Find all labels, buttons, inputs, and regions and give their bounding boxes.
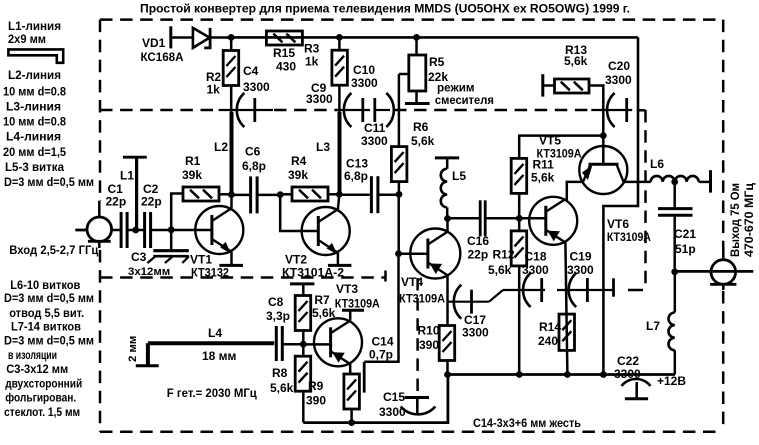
- node rail at R10: [445, 372, 451, 378]
- svg-text:5,6k: 5,6k: [564, 54, 588, 68]
- svg-text:R3: R3: [304, 42, 320, 56]
- svg-text:2х9 мм: 2х9 мм: [8, 32, 46, 46]
- wire VT2 emitter to chassis bar: [337, 253, 340, 266]
- svg-text:R14: R14: [539, 320, 561, 334]
- node L6 tap: [672, 179, 678, 185]
- svg-text:390: 390: [306, 394, 326, 408]
- svg-text:470-670 МГц: 470-670 МГц: [742, 182, 756, 257]
- wire C1 to C2: [127, 229, 145, 232]
- svg-text:C15: C15: [383, 390, 405, 404]
- svg-text:22p: 22p: [468, 248, 489, 262]
- oscillator compartment wall x417.6 (dashed): [416, 278, 419, 396]
- svg-text:Вход 2,5-2,7 ГГц: Вход 2,5-2,7 ГГц: [9, 243, 99, 257]
- node top rail at R5: [414, 35, 420, 41]
- svg-text:C22: C22: [617, 354, 639, 368]
- capacitor C14 0,7p gimmick stub: [363, 362, 366, 393]
- resistor R11 5,6k: [511, 136, 603, 219]
- svg-text:430: 430: [276, 60, 296, 74]
- svg-text:L5-3 витка: L5-3 витка: [5, 160, 64, 174]
- output compartment bottom corner dash: [628, 289, 643, 292]
- resistor R3 1k: [332, 37, 348, 112]
- wire VT4 base: [399, 252, 429, 255]
- svg-text:C4: C4: [243, 64, 259, 78]
- resistor R12 5,6k: [511, 218, 527, 374]
- node VT1 collector / L2: [229, 192, 235, 198]
- capacitor C8 3,3p: [276, 326, 303, 361]
- L1 strip symbol: [8, 49, 63, 62]
- svg-text:3300: 3300: [306, 92, 333, 106]
- svg-text:L4: L4: [208, 326, 222, 340]
- wire R1 to collector node: [219, 193, 232, 196]
- transistor VT2 КТ3101А-2 npn: [302, 207, 350, 255]
- svg-text:5,6k: 5,6k: [488, 263, 512, 277]
- wire IF +12V rail: [448, 373, 676, 376]
- stripline L2: [230, 112, 234, 195]
- node rail at R12/C18: [516, 372, 522, 378]
- svg-text:5,6k: 5,6k: [531, 171, 555, 185]
- shield box left edge lower (dashed): [99, 250, 102, 432]
- output coax connector: [710, 247, 736, 290]
- wire C17 diagonal to IF wall: [489, 290, 503, 302]
- svg-text:R1: R1: [185, 154, 201, 168]
- svg-text:3х12мм: 3х12мм: [128, 266, 170, 278]
- svg-text:VT4: VT4: [401, 275, 423, 289]
- svg-text:R5: R5: [429, 55, 445, 69]
- svg-text:L7-14 витков: L7-14 витков: [11, 320, 81, 334]
- inner shield wall y110 right section (dashed): [394, 109, 590, 112]
- wire VT1 base bias jog: [171, 194, 183, 230]
- node VT1 base: [168, 227, 174, 233]
- stripline L3: [338, 112, 342, 194]
- svg-text:С3-3х12 мм: С3-3х12 мм: [6, 362, 68, 376]
- transistor VT5 КТ3109А pnp (base up): [579, 136, 627, 194]
- wire VT5 collector to L6: [623, 181, 651, 184]
- svg-text:R6: R6: [413, 120, 429, 134]
- shield box bottom edge (dashed): [100, 430, 722, 433]
- node VT2 collector / L3: [336, 192, 342, 198]
- svg-text:VD1: VD1: [142, 36, 166, 50]
- node C13/R6/mixer: [396, 192, 402, 198]
- transistor VT4 КТ3109А pnp mixer: [410, 229, 460, 279]
- inner shield wall y110 mid section (dashed): [274, 109, 339, 112]
- node VT4 base: [396, 251, 402, 257]
- svg-text:390: 390: [419, 338, 439, 352]
- svg-text:2 мм: 2 мм: [127, 336, 139, 362]
- wire +12V feed right vertical: [603, 37, 638, 374]
- chassis bar VT3 collector: [342, 309, 364, 312]
- svg-text:C6: C6: [245, 145, 261, 159]
- node rail at R14: [565, 372, 571, 378]
- svg-text:VT1: VT1: [190, 253, 212, 267]
- node VT4 collector / L5 / C16: [445, 216, 451, 222]
- svg-text:VT5: VT5: [539, 134, 561, 148]
- svg-text:39k: 39k: [182, 168, 202, 182]
- node L1 tap: [133, 227, 139, 233]
- wire C16 to VT6 base node: [485, 217, 546, 220]
- wire C6 to R4/VT2 node: [257, 194, 280, 197]
- svg-text:КТ3109А: КТ3109А: [399, 292, 445, 306]
- wire to output connector: [675, 270, 754, 273]
- svg-text:VT2: VT2: [285, 253, 307, 267]
- svg-text:C3: C3: [131, 250, 147, 264]
- wire oscillator bottom rail: [303, 375, 448, 423]
- svg-text:C11: C11: [364, 121, 386, 135]
- svg-text:C18: C18: [525, 250, 547, 264]
- svg-text:1k: 1k: [207, 83, 221, 97]
- capacitor C22 3300 feedthrough: [622, 379, 651, 399]
- node R9 bottom: [349, 420, 355, 426]
- svg-text:D=3 мм d=0,5 мм: D=3 мм d=0,5 мм: [4, 175, 94, 189]
- shield box left edge upper (dashed): [99, 20, 102, 201]
- svg-text:R4: R4: [291, 154, 307, 168]
- shield wall jog at C20 to inner box: [638, 109, 646, 111]
- svg-text:3300: 3300: [614, 367, 641, 381]
- capacitor C10 3300 feedthrough: [375, 93, 394, 127]
- svg-text:1k: 1k: [305, 55, 319, 69]
- svg-text:22p: 22p: [106, 195, 127, 209]
- resistor R4 39k: [280, 187, 328, 201]
- svg-text:3300: 3300: [462, 326, 489, 340]
- resistor R6 5,6k: [391, 74, 407, 194]
- resistor R13 5,6k: [543, 74, 604, 96]
- svg-text:L3: L3: [316, 140, 330, 154]
- node top rail at R2/VD1: [228, 35, 234, 41]
- svg-text:Простой конвертер для приема т: Простой конвертер для приема телевидения…: [140, 2, 630, 16]
- capacitor C3 3x12мм strip to chassis: [148, 230, 189, 263]
- shield box right edge upper (dashed): [722, 20, 725, 247]
- wire VT3 base: [303, 343, 330, 346]
- resistor R14 240: [559, 314, 575, 350]
- capacitor C16 22p: [480, 200, 485, 236]
- wire top +12V rail: [231, 36, 638, 39]
- svg-text:R12: R12: [493, 248, 515, 262]
- svg-text:КС168А: КС168А: [141, 50, 184, 64]
- svg-text:6,8p: 6,8p: [344, 169, 368, 183]
- inductor L7: [668, 272, 674, 375]
- svg-text:18 мм: 18 мм: [202, 349, 237, 363]
- svg-text:10 мм d=0.8: 10 мм d=0.8: [3, 115, 66, 129]
- capacitor C20 3300 feedthrough: [591, 93, 632, 136]
- capacitor C15 3300 feedthrough: [401, 398, 436, 415]
- svg-text:стеклот. 1,5 мм: стеклот. 1,5 мм: [4, 405, 80, 419]
- lower shield wall y277.5 (dashed): [100, 276, 385, 279]
- capacitor C4 3300 feedthrough: [219, 93, 273, 127]
- svg-text:R10: R10: [418, 324, 440, 338]
- output compartment right wall x645.5 (dashed): [644, 110, 647, 290]
- transistor VT6 КТ3109А pnp: [529, 197, 577, 245]
- capacitor C13 6,8p: [371, 176, 378, 213]
- wire VT3 emitter to R9: [349, 364, 352, 374]
- svg-text:5,6k: 5,6k: [270, 381, 294, 395]
- svg-text:C10: C10: [353, 63, 375, 77]
- wire R4 to collector node: [328, 193, 339, 196]
- svg-text:фольгирован.: фольгирован.: [5, 391, 76, 405]
- svg-text:C20: C20: [608, 59, 630, 73]
- svg-text:3300: 3300: [361, 134, 388, 148]
- svg-text:3300: 3300: [243, 80, 270, 94]
- svg-text:R15: R15: [273, 46, 295, 60]
- svg-text:C19: C19: [570, 250, 592, 264]
- wire VT1 collector to node: [230, 195, 233, 209]
- svg-text:L1-линия: L1-линия: [8, 19, 61, 33]
- svg-text:смесителя: смесителя: [435, 93, 494, 107]
- svg-text:20 мм d=1,5: 20 мм d=1,5: [3, 145, 66, 159]
- svg-text:С14-3х3+6 мм жесть: С14-3х3+6 мм жесть: [473, 416, 581, 430]
- svg-text:L6-10 витков: L6-10 витков: [10, 278, 80, 292]
- wire VT2 collector to node: [338, 195, 339, 210]
- wire VT2 base jog: [280, 195, 318, 231]
- svg-text:R8: R8: [272, 366, 288, 380]
- svg-text:отвод 5,5 вит.: отвод 5,5 вит.: [9, 306, 84, 320]
- svg-text:3300: 3300: [522, 263, 549, 277]
- node VT3 base: [300, 341, 306, 347]
- shield box top edge (dashed): [100, 18, 722, 21]
- svg-text:Выход 75 Ом: Выход 75 Ом: [728, 183, 742, 257]
- wire input to C1: [112, 229, 120, 232]
- svg-text:3300: 3300: [379, 405, 406, 419]
- resistor R8 5,6k: [295, 344, 311, 422]
- svg-text:КТ3132: КТ3132: [191, 266, 229, 280]
- wire L6 tap to C21: [673, 182, 676, 207]
- svg-text:VT3: VT3: [336, 282, 358, 296]
- inductor L6 with tap: [651, 170, 711, 192]
- resistor R9 390: [344, 374, 360, 423]
- svg-text:двухсторонний: двухсторонний: [5, 377, 82, 391]
- resistor R5 22k mixer-mode trimmer: [399, 37, 430, 103]
- capacitor C21 51p: [658, 209, 693, 272]
- svg-text:3300: 3300: [605, 73, 632, 87]
- chassis bar VT1 emitter: [219, 264, 243, 267]
- svg-text:R9: R9: [308, 379, 324, 393]
- diode VD1 КС168А zener: [171, 26, 231, 48]
- node top rail at R3: [337, 35, 343, 41]
- svg-text:D=3 мм d=0,5 мм: D=3 мм d=0,5 мм: [4, 334, 94, 348]
- svg-text:F гет.= 2030 МГц: F гет.= 2030 МГц: [167, 386, 258, 400]
- svg-text:КТ3101А-2: КТ3101А-2: [282, 266, 344, 280]
- svg-text:L3-линия: L3-линия: [6, 100, 61, 114]
- svg-text:КТ3109А: КТ3109А: [537, 147, 582, 161]
- node rail at +12V feed: [601, 372, 607, 378]
- node output junction: [672, 269, 678, 275]
- wire node to C13: [339, 193, 370, 196]
- chassis bar VT2 emitter: [328, 264, 351, 267]
- wire C13 to R6 node: [378, 193, 399, 196]
- svg-text:240: 240: [538, 334, 558, 348]
- capacitor C17 3300 feedthrough: [448, 285, 490, 319]
- svg-text:3,3p: 3,3p: [266, 309, 290, 323]
- node VT5 base: [600, 133, 606, 139]
- wire VT6 collector to VT5 emitter: [565, 182, 583, 200]
- capacitor C9 3300 feedthrough: [339, 93, 370, 127]
- wire R6 node down to VT4 base: [397, 194, 400, 253]
- svg-text:+12В: +12В: [657, 374, 686, 388]
- transistor VT1 КТ3132 npn: [195, 206, 243, 254]
- wire VT4 emitter down: [446, 275, 449, 325]
- resistor R15 430: [266, 31, 302, 45]
- shield box right edge lower (dashed): [722, 291, 725, 432]
- capacitor C2 22p: [145, 212, 151, 248]
- svg-text:3300: 3300: [351, 76, 378, 90]
- wire C2 to VT1 base: [151, 229, 212, 232]
- svg-text:C14: C14: [372, 335, 394, 349]
- svg-text:КТ3109А: КТ3109А: [607, 230, 651, 244]
- svg-text:22p: 22p: [141, 195, 162, 209]
- svg-text:51p: 51p: [675, 242, 696, 256]
- inductor L5: [435, 158, 459, 219]
- svg-text:в изоляции: в изоляции: [8, 348, 57, 362]
- svg-text:C16: C16: [467, 234, 489, 248]
- wire node to C6: [232, 194, 250, 197]
- wire VT6 emitter down through C19: [565, 243, 567, 375]
- wire VT4 base node down to C14: [364, 254, 398, 362]
- svg-text:L2: L2: [214, 140, 228, 154]
- svg-text:L7: L7: [646, 319, 660, 333]
- svg-text:L2-линия: L2-линия: [8, 68, 61, 82]
- input coax connector: [75, 201, 111, 248]
- svg-text:C8: C8: [268, 295, 284, 309]
- svg-text:L1: L1: [120, 169, 134, 183]
- svg-text:L4-линия: L4-линия: [6, 130, 61, 144]
- capacitor C19 3300 feedthrough: [557, 273, 614, 307]
- stripline L4 18 мм: [136, 343, 274, 366]
- svg-text:0,7p: 0,7p: [369, 348, 393, 362]
- resistor R2 1k: [223, 37, 239, 112]
- svg-text:R7: R7: [314, 293, 330, 307]
- inner shield wall y110 left section (dashed): [100, 109, 219, 112]
- svg-text:D=3 мм d=0,5 мм: D=3 мм d=0,5 мм: [4, 291, 94, 305]
- capacitor C1 22p: [121, 212, 127, 248]
- svg-text:VT6: VT6: [607, 217, 629, 231]
- transistor VT3 КТ3109А pnp oscillator: [314, 318, 362, 366]
- resistor R10 390: [439, 326, 455, 375]
- svg-text:C21: C21: [674, 227, 696, 241]
- wire node to C16: [448, 217, 480, 220]
- resistor R7 5,6k: [290, 284, 314, 344]
- wire VT4 collector up to node: [446, 219, 449, 232]
- svg-text:39k: 39k: [288, 168, 308, 182]
- node R11/R12/VT6 base: [516, 215, 522, 221]
- svg-text:10 мм d=0.8: 10 мм d=0.8: [3, 85, 66, 99]
- svg-text:5,6k: 5,6k: [411, 134, 435, 148]
- resistor R1 39k: [183, 187, 219, 201]
- svg-text:L5: L5: [452, 169, 466, 183]
- wire VT3 collector to chassis bar: [349, 310, 352, 320]
- capacitor C6 6,8p: [251, 176, 258, 213]
- node C6/R4/VT2-base: [277, 192, 283, 198]
- lower shield wall end tick: [384, 271, 387, 282]
- svg-text:L6: L6: [650, 157, 664, 171]
- svg-text:6,8p: 6,8p: [242, 159, 266, 173]
- capacitor C18 3300 feedthrough: [503, 273, 545, 307]
- stripline L1: [123, 157, 147, 230]
- wire VT1 emitter to chassis bar: [230, 252, 233, 266]
- svg-text:3300: 3300: [567, 263, 594, 277]
- svg-text:КТ3109А: КТ3109А: [335, 297, 380, 311]
